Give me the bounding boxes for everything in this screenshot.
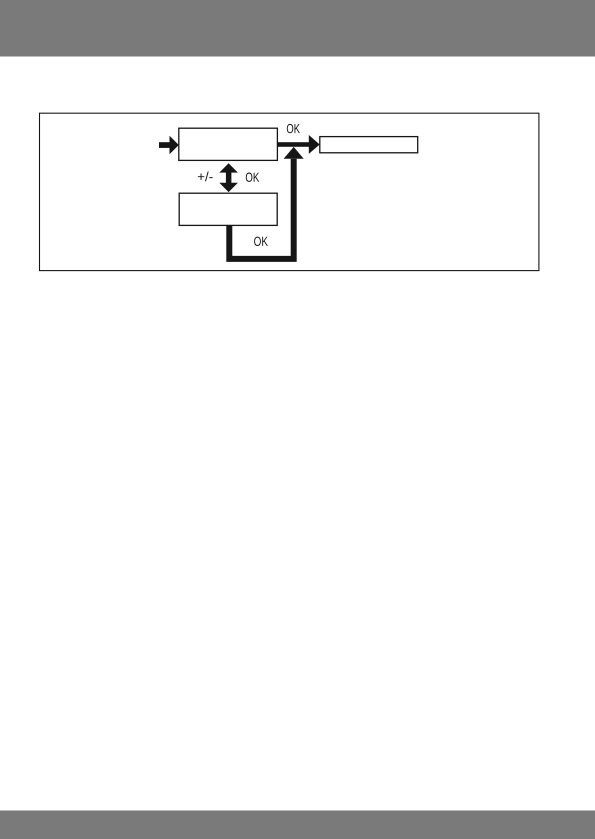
double arrow (menu/option) — [219, 163, 238, 192]
label OK (bottom) — [254, 237, 268, 246]
label OK (middle) — [246, 173, 259, 182]
result box (right) — [320, 137, 418, 153]
diagram frame — [40, 113, 539, 270]
entry arrow — [159, 136, 179, 155]
OK arrow (top box to result box) — [277, 135, 319, 154]
return elbow wire — [229, 159, 293, 259]
option box (bottom) — [179, 193, 277, 225]
menu box (top) — [179, 128, 278, 160]
label OK (top) — [287, 124, 300, 133]
header bar — [0, 0, 595, 57]
footer bar — [0, 811, 595, 839]
label +/- — [198, 172, 213, 182]
up arrowhead (into OK arrow) — [284, 147, 304, 159]
